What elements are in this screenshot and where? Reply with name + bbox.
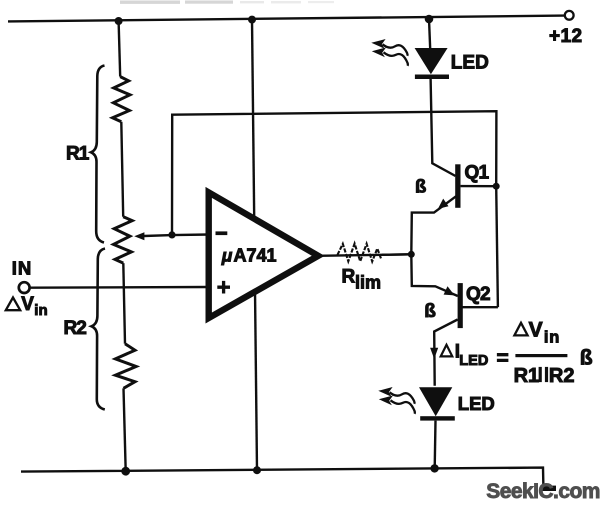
LED D1	[415, 48, 448, 74]
svg-text:+12: +12	[549, 26, 582, 47]
transistor Q2 bar	[458, 283, 463, 328]
resistor R1	[113, 77, 131, 122]
LED D1 light rays	[383, 44, 408, 66]
resistor R2	[115, 344, 136, 389]
wire divider lower segment	[123, 263, 125, 344]
wiper arrow	[134, 232, 144, 240]
wire opamp output	[318, 254, 411, 256]
svg-text:LED: LED	[458, 393, 495, 414]
svg-text:μ: μ	[221, 246, 233, 266]
node bottom LED junction	[430, 464, 438, 472]
terminal +12	[565, 11, 574, 20]
svg-text:ß: ß	[580, 347, 593, 370]
wire base bus Q1-Q2	[496, 186, 498, 307]
wire Q1 collector	[431, 79, 456, 176]
node emitter junction	[408, 251, 415, 258]
svg-text:V: V	[21, 294, 34, 315]
Q2 emitter arrow	[444, 286, 455, 295]
brace R2	[92, 249, 106, 410]
svg-text:V: V	[529, 318, 543, 341]
svg-text:in: in	[34, 302, 47, 319]
wire Q2 emitter path	[411, 254, 457, 296]
resistor Rlim	[338, 244, 382, 262]
transistor Q1 bar	[455, 164, 460, 208]
wire opamp supply vertical	[252, 20, 257, 471]
wire noninverting input	[30, 286, 210, 289]
node bottom R2 junction	[121, 467, 130, 476]
wire feedback	[172, 111, 496, 235]
wire Q1 emitter path	[411, 196, 456, 254]
wire divider mid segment	[121, 122, 123, 217]
svg-text:R2: R2	[64, 318, 87, 339]
wire inverting input	[172, 233, 210, 236]
LED D2	[419, 387, 452, 416]
wire divider bottom segment	[124, 388, 126, 471]
node top supply junction	[248, 16, 256, 24]
wire bottom rail	[21, 468, 543, 488]
node bottom supply junction	[253, 466, 261, 474]
node base junction	[493, 183, 500, 190]
svg-text:R2: R2	[549, 365, 575, 387]
svg-text:in: in	[544, 328, 560, 346]
wire Q2 collector	[434, 320, 457, 386]
node top LED junction	[425, 15, 434, 24]
node top-left junction	[115, 17, 123, 25]
scan smudge top	[120, 1, 334, 4]
svg-text:ß: ß	[415, 176, 426, 197]
svg-text:Q2: Q2	[466, 284, 490, 305]
brace R1	[91, 66, 105, 243]
current direction arrow	[430, 348, 438, 359]
svg-text:lim: lim	[355, 273, 381, 293]
wire top rail	[8, 16, 565, 22]
wire LED D2 cathode to rail	[434, 421, 437, 469]
svg-text:ß: ß	[424, 301, 436, 322]
svg-text:IN: IN	[12, 258, 33, 279]
svg-text:LED: LED	[451, 53, 489, 74]
label delta-I-LED equation	[441, 318, 593, 387]
wire Q1 base	[461, 185, 497, 187]
svg-text:R1: R1	[514, 365, 540, 387]
wire divider top segment	[119, 21, 121, 77]
node wiper-feedback junction	[168, 231, 175, 238]
svg-text:Q1: Q1	[465, 163, 490, 184]
LED D2 light rays	[390, 392, 415, 414]
svg-text:SeekIC.com: SeekIC.com	[486, 480, 600, 503]
Q1 emitter arrow	[438, 199, 449, 209]
potentiometer zigzag	[114, 217, 133, 263]
svg-text:A741: A741	[234, 245, 277, 265]
LED D1 wire anode	[429, 19, 430, 49]
op-amp U1	[209, 192, 319, 318]
label delta-Vin	[6, 298, 20, 311]
svg-text:R: R	[342, 267, 356, 288]
svg-text:=: =	[497, 347, 509, 370]
wire Rlim to node	[382, 253, 412, 256]
svg-text:LED: LED	[459, 353, 488, 369]
wire Q2 base	[462, 306, 498, 308]
svg-text:R1: R1	[66, 144, 90, 165]
